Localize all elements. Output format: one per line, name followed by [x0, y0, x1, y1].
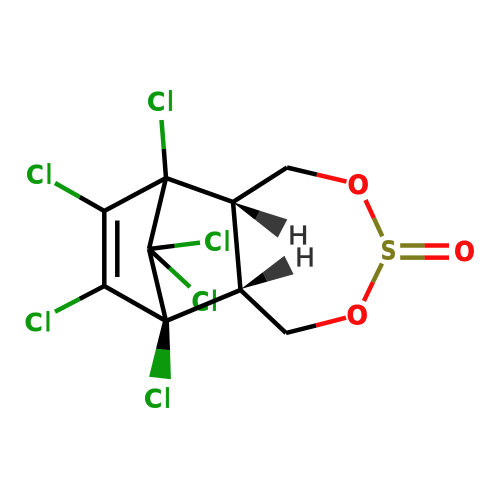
bond C1-C7 (methano bridge): [149, 178, 166, 249]
bond S=O line 2: [400, 255, 449, 260]
bond O(bottom)-CH2(bottom): [286, 318, 346, 333]
bond C9a-CH2(bottom): [241, 290, 287, 333]
bond CH2(top)-O(top): [287, 168, 347, 182]
bond C7-Cl(bridge upper): [149, 243, 200, 249]
wedge bond C4-Cl(bottom): [149, 321, 171, 380]
atom label S (sulfite): [382, 240, 395, 260]
atom label Cl on C7 (bridge lower): [193, 290, 216, 311]
atom label Cl on C2 (upper left): [27, 163, 50, 184]
atom label Cl on C7 (bridge upper): [205, 230, 228, 251]
wedge bond C5a-H: [233, 202, 288, 238]
bond C1-C5a: [166, 178, 233, 202]
atom label Cl on C4 (bottom): [145, 387, 169, 408]
bond S=O line 1: [400, 243, 449, 248]
atom label H on C5a: [291, 226, 306, 245]
bond C7-Cl(bridge lower): [149, 249, 190, 287]
atom label O (top ester): [349, 174, 368, 194]
bond O(top)-S: [366, 200, 383, 236]
atom label O (sulfoxide): [455, 241, 473, 261]
bond C4-C9a (crosses lower bridge Cl label): [166, 290, 241, 321]
bond C2=C3 inner line: [115, 221, 120, 278]
bond C1-Cl(top): [162, 120, 167, 178]
atom label Cl on C1 (top): [148, 90, 172, 111]
bond C2-Cl(upper left): [55, 183, 104, 211]
bond C4-C7 (methano bridge): [149, 249, 166, 321]
bond C3-C4: [104, 286, 166, 321]
atom label O (bottom ester): [348, 305, 367, 325]
atom label Cl on C3 (lower left): [26, 311, 50, 331]
bond C1-C2: [104, 178, 166, 211]
bond S-O(bottom): [364, 264, 382, 302]
bond C5a-C9a: [233, 202, 241, 290]
bond C5a-CH2(top): [233, 168, 287, 203]
wedge bond C9a-H: [241, 256, 294, 289]
bond C3-Cl(lower left): [55, 286, 104, 312]
atom label H on C9a: [298, 248, 313, 267]
bond C2=C3 outer line: [102, 211, 107, 286]
